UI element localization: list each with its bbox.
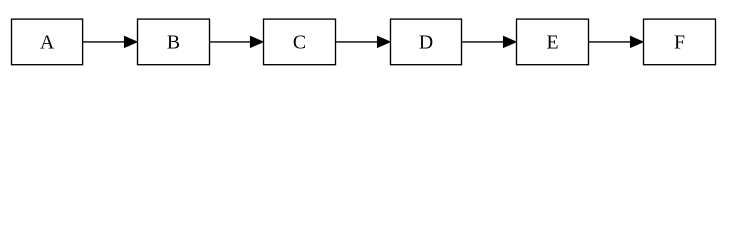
- box A: [12, 19, 83, 65]
- arrow C to D: [336, 36, 391, 47]
- box D: [391, 19, 462, 65]
- svg-text:C: C: [293, 31, 306, 53]
- svg-text:F: F: [674, 31, 685, 53]
- box C: [264, 19, 336, 65]
- svg-text:A: A: [40, 31, 55, 53]
- arrow A to B: [83, 36, 138, 47]
- arrow D to E: [462, 36, 517, 47]
- box E: [517, 19, 589, 65]
- arrow B to C: [210, 36, 264, 47]
- box F: [644, 19, 716, 65]
- box B: [138, 19, 210, 65]
- arrow E to F: [589, 36, 644, 47]
- svg-text:D: D: [419, 31, 433, 53]
- svg-text:B: B: [167, 31, 180, 53]
- svg-text:E: E: [546, 31, 558, 53]
